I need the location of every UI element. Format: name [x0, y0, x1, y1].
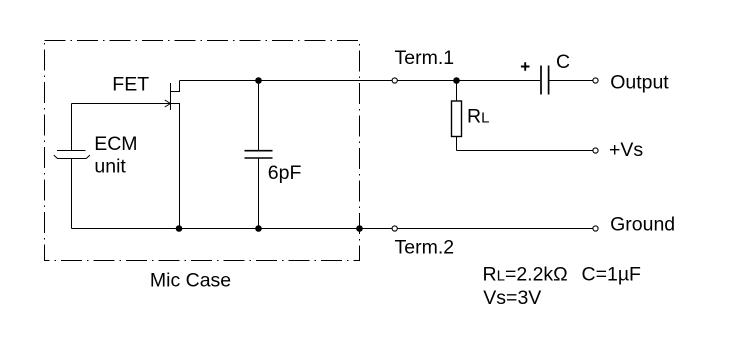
svg-text:+Vs: +Vs: [609, 139, 643, 161]
wire: gate lead / top edge of ECM loop: [72, 103, 180, 105]
svg-text:RL: RL: [467, 106, 489, 128]
terminal circle: Term.1: [392, 78, 397, 83]
capacitor: ECM electret capsule: [54, 151, 90, 159]
transistor FET gate arrowhead: [165, 100, 171, 107]
terminal circle: Output: [593, 78, 598, 83]
svg-text:Term.1: Term.1: [395, 47, 455, 69]
capacitor C3 6pF bottom lead: [258, 158, 260, 229]
terminal circle: +Vs: [593, 148, 598, 153]
svg-text:RL=2.2kΩC=1µF: RL=2.2kΩC=1µF: [483, 263, 642, 285]
wire: left edge lower (ECM unit loop): [71, 159, 73, 229]
svg-text:Term.2: Term.2: [395, 236, 455, 258]
enclosure: Mic Case dash-dot boundary: [45, 41, 360, 261]
wire: bottom rail (ground net): [72, 228, 594, 230]
svg-text:Ground: Ground: [610, 214, 675, 236]
junction dot: bottom rail at case boundary: [356, 225, 363, 232]
svg-text:Vs=3V: Vs=3V: [483, 287, 541, 309]
capacitor C plates (coupling, polarized): [541, 66, 549, 95]
junction dot: Term.1 / RL node: [453, 77, 460, 84]
label: ECM unit: [94, 133, 137, 178]
svg-text:unit: unit: [94, 156, 126, 178]
svg-text:6pF: 6pF: [268, 162, 302, 184]
capacitor C3 6pF plates: [245, 151, 273, 158]
junction dot: FET source at bottom rail: [176, 225, 183, 232]
svg-text:C: C: [556, 51, 570, 73]
resistor RL bottom lead: [456, 137, 458, 151]
svg-text:ECM: ECM: [94, 133, 137, 155]
resistor RL body: [452, 101, 462, 137]
junction dot: 6pF bottom at bottom rail: [255, 225, 262, 232]
svg-text:FET: FET: [112, 74, 149, 96]
transistor FET source lead / right edge of ECM loop: [171, 104, 180, 229]
wire: left edge upper (ECM unit loop): [71, 104, 73, 151]
transistor FET drain lead: [171, 81, 180, 92]
svg-text:Output: Output: [610, 72, 669, 94]
wire: top rail left of coupling capacitor: [180, 80, 541, 82]
terminal circle: Ground: [593, 226, 598, 231]
wire: RL to +Vs terminal: [457, 150, 594, 152]
terminal circle: Term.2: [392, 226, 397, 231]
transistor FET channel bar: [170, 83, 172, 110]
capacitor C3 6pF top lead: [258, 81, 260, 151]
junction dot: 6pF top node: [255, 77, 262, 84]
resistor RL top lead: [456, 81, 458, 102]
svg-text:Mic Case: Mic Case: [150, 269, 231, 291]
polarity plus mark for capacitor C: [521, 62, 530, 71]
wire: top rail capacitor to Output terminal: [550, 80, 594, 82]
